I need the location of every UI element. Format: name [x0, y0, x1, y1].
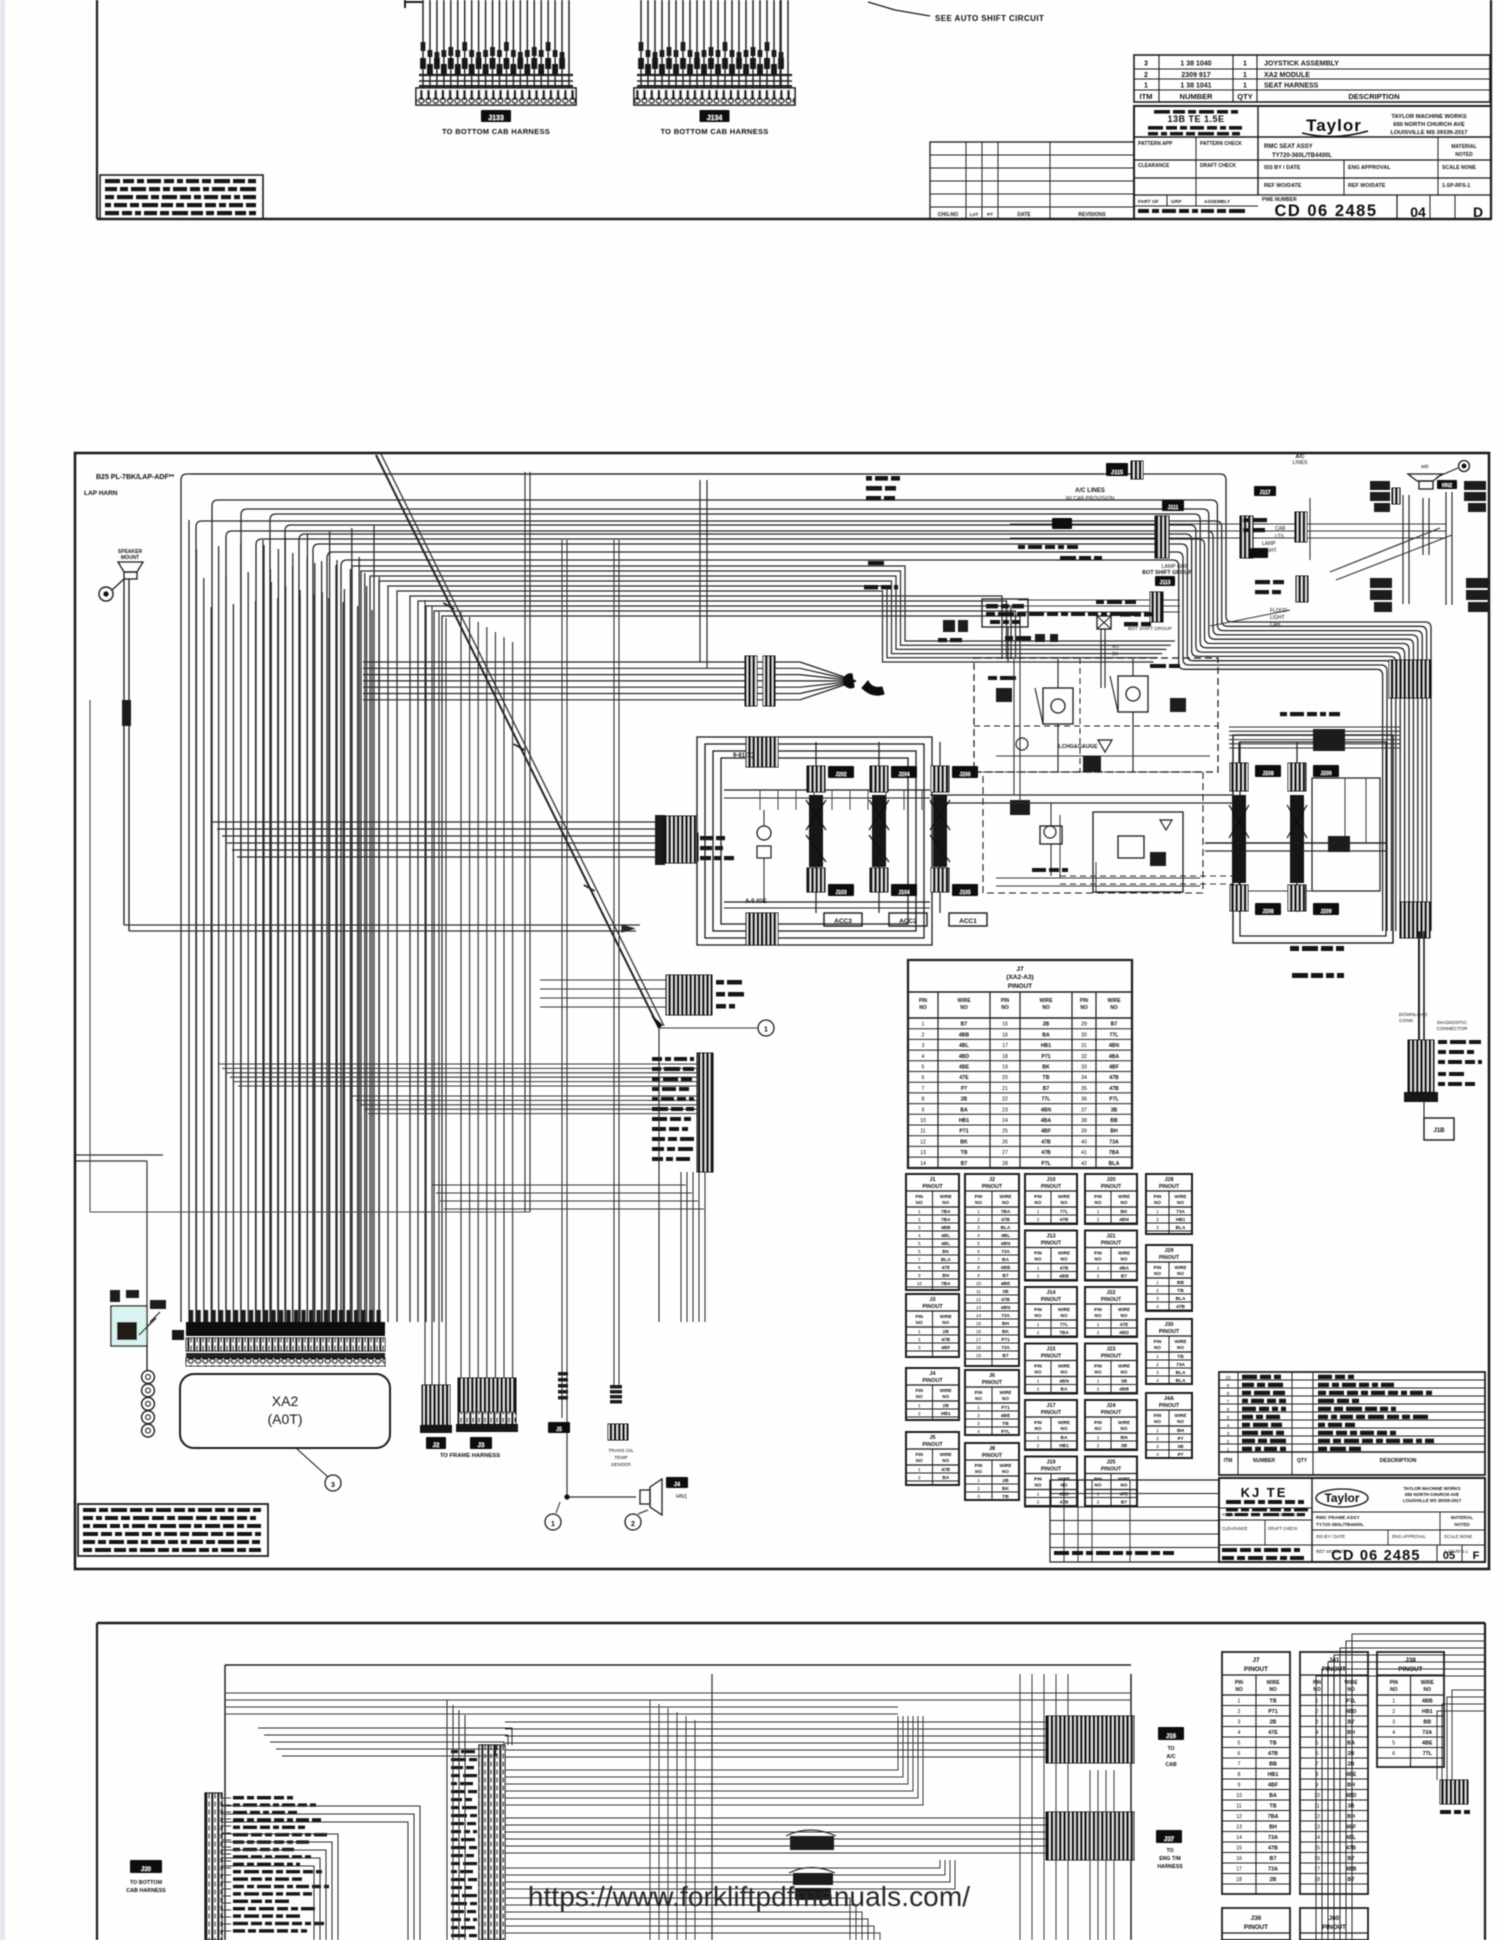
svg-text:NO: NO: [1095, 1370, 1102, 1375]
svg-text:38: 38: [1081, 1118, 1087, 1124]
svg-text:4BE: 4BE: [959, 1065, 970, 1071]
svg-text:J3: J3: [478, 1443, 485, 1449]
svg-text:2: 2: [1156, 1217, 1159, 1222]
sheet 3 border: [97, 1623, 1485, 1940]
svg-text:23: 23: [1002, 1107, 1008, 1113]
stub block verticals down to XA2: [659, 1028, 705, 1322]
left long wires: [76, 700, 530, 1306]
svg-text:10: 10: [920, 1118, 926, 1124]
svg-text:J10: J10: [1047, 1177, 1056, 1183]
svg-text:3: 3: [977, 1225, 980, 1230]
svg-text:B7: B7: [1270, 1856, 1277, 1862]
svg-text:PATTERN CHECK: PATTERN CHECK: [1200, 141, 1242, 147]
pinout table J7 sheet3: [1222, 1652, 1290, 1894]
svg-text:4BF: 4BF: [1041, 1129, 1051, 1135]
svg-text:CONN: CONN: [1399, 1018, 1414, 1024]
svg-text:J17: J17: [1047, 1403, 1056, 1409]
svg-text:BH: BH: [1121, 1435, 1128, 1441]
wire J134 to auto shift note: [780, 0, 930, 88]
svg-text:NO: NO: [1095, 1426, 1102, 1431]
svg-text:73A: 73A: [1176, 1362, 1185, 1368]
svg-text:PIN: PIN: [975, 1463, 983, 1468]
svg-text:PIN: PIN: [1313, 1680, 1322, 1686]
svg-text:BK: BK: [960, 1139, 968, 1145]
svg-text:J14: J14: [1047, 1290, 1056, 1296]
svg-text:4BD: 4BD: [1119, 1330, 1129, 1336]
verticals into XA2 connector band: [189, 520, 379, 1322]
svg-text:NO: NO: [1154, 1200, 1161, 1205]
svg-text:J60: J60: [1329, 1915, 1340, 1922]
svg-text:NO: NO: [1001, 1005, 1009, 1011]
svg-text:9: 9: [1316, 1783, 1319, 1789]
svg-text:47B: 47B: [1001, 1217, 1010, 1223]
svg-text:26: 26: [1002, 1139, 1008, 1145]
svg-text:ISS BY / DATE: ISS BY / DATE: [1264, 165, 1301, 171]
svg-text:22: 22: [1002, 1097, 1008, 1103]
svg-text:21: 21: [1002, 1086, 1008, 1092]
svg-text:4BN: 4BN: [1001, 1241, 1011, 1247]
X junction box: [1083, 612, 1154, 772]
svg-text:PINOUT: PINOUT: [1041, 1467, 1062, 1473]
svg-text:J23: J23: [1107, 1347, 1116, 1353]
svg-text:2: 2: [631, 1521, 635, 1528]
horn HN3 speaker mount left: [99, 549, 143, 931]
svg-text:4BF: 4BF: [1268, 1783, 1279, 1789]
svg-text:NO: NO: [1002, 1200, 1009, 1205]
pinout tables column 1: [906, 1174, 959, 1485]
svg-text:4BN: 4BN: [1041, 1107, 1052, 1113]
svg-text:J5: J5: [556, 1427, 562, 1433]
svg-text:WIRE: WIRE: [1000, 1390, 1012, 1395]
pinout tables column 2: [965, 1174, 1019, 1500]
svg-text:D: D: [1473, 204, 1483, 220]
svg-text:TO: TO: [1167, 1746, 1174, 1752]
svg-text:4BB: 4BB: [1346, 1867, 1357, 1873]
relay lower dashed area components: [996, 800, 1200, 893]
svg-text:SEE AUTO SHIFT CIRCUIT: SEE AUTO SHIFT CIRCUIT: [935, 14, 1044, 23]
svg-text:J13: J13: [1047, 1234, 1056, 1240]
svg-text:J202: J202: [835, 772, 846, 778]
proprietary note sheet2: [78, 1504, 268, 1556]
svg-text:33: 33: [1081, 1065, 1087, 1071]
svg-text:J115: J115: [1111, 470, 1123, 476]
horn HN1 bottom: [640, 1477, 688, 1515]
solenoid SHIFT A coil: [1229, 742, 1281, 915]
svg-text:NO: NO: [1154, 1271, 1161, 1276]
svg-text:5: 5: [922, 1065, 925, 1071]
svg-text:PINOUT: PINOUT: [982, 1453, 1003, 1459]
svg-text:1: 1: [1227, 1447, 1230, 1452]
svg-text:J1B: J1B: [1433, 1128, 1445, 1134]
svg-text:PATTERN CHECK: PATTERN CHECK: [1268, 1512, 1302, 1517]
svg-text:PIN: PIN: [1001, 998, 1010, 1004]
right block bottom labels: [1290, 946, 1344, 978]
svg-text:P71: P71: [1001, 1405, 1010, 1411]
svg-text:MATERIAL: MATERIAL: [1451, 144, 1476, 150]
frame harness connector J3 hatch: [456, 1378, 518, 1449]
svg-text:2: 2: [918, 1217, 921, 1222]
svg-text:WIRE: WIRE: [940, 1194, 952, 1199]
svg-text:NO: NO: [1121, 1426, 1128, 1431]
svg-text:2: 2: [1097, 1387, 1100, 1392]
svg-text:NO: NO: [1035, 1257, 1042, 1262]
svg-text:SCALE NONE: SCALE NONE: [1444, 1534, 1472, 1539]
svg-text:BH: BH: [1269, 1825, 1277, 1831]
svg-text:P7L: P7L: [1041, 1161, 1051, 1167]
svg-text:J38: J38: [1405, 1657, 1416, 1664]
svg-text:2B: 2B: [943, 1403, 950, 1409]
svg-text:2B: 2B: [1002, 1478, 1009, 1484]
relay block small components: [988, 664, 1210, 756]
svg-text:PIN: PIN: [1154, 1194, 1162, 1199]
horizontal bundle to J-stub block (upper): [218, 1064, 697, 1086]
svg-text:47E: 47E: [1120, 1492, 1129, 1498]
sheet3 stair bundle to J16: [505, 1716, 1046, 1805]
svg-text:4: 4: [1238, 1730, 1241, 1736]
svg-text:41: 41: [1081, 1150, 1087, 1156]
svg-text:PINOUT: PINOUT: [922, 1378, 943, 1384]
svg-text:NO: NO: [1035, 1200, 1042, 1205]
svg-text:73A: 73A: [1001, 1249, 1010, 1255]
svg-text:4BL: 4BL: [941, 1241, 950, 1247]
svg-text:2: 2: [1144, 72, 1148, 79]
svg-text:47B: 47B: [1346, 1846, 1356, 1852]
svg-text:PIN: PIN: [1094, 1307, 1102, 1312]
svg-text:NO: NO: [1424, 1687, 1432, 1693]
svg-text:ENG APPROVAL: ENG APPROVAL: [1392, 1534, 1426, 1539]
sheet3 connector strip left: [126, 1793, 231, 1940]
svg-text:WIRE: WIRE: [1118, 1420, 1130, 1425]
svg-text:2: 2: [1097, 1500, 1100, 1505]
svg-text:2: 2: [1097, 1274, 1100, 1279]
right side descent bundle below corner: [1389, 660, 1431, 938]
title block sheet2 CD 06 2485: [1219, 1478, 1485, 1564]
svg-text:5: 5: [1316, 1741, 1319, 1747]
svg-text:7BA: 7BA: [941, 1217, 951, 1223]
svg-text:47B: 47B: [1001, 1297, 1010, 1303]
svg-text:BOT SHIFT GROUP: BOT SHIFT GROUP: [1128, 626, 1172, 632]
svg-text:9: 9: [1238, 1783, 1241, 1789]
svg-text:PIN: PIN: [1034, 1477, 1042, 1482]
svg-text:TEMP: TEMP: [614, 1455, 627, 1461]
svg-text:J133: J133: [488, 115, 504, 122]
svg-text:PIN: PIN: [915, 1194, 923, 1199]
svg-text:HB1: HB1: [1268, 1772, 1279, 1778]
svg-text:PIN: PIN: [975, 1390, 983, 1395]
svg-text:29: 29: [1081, 1022, 1087, 1028]
svg-text:BK: BK: [1042, 1065, 1050, 1071]
pinout table J7 (XA2-A3): [908, 960, 1132, 1168]
svg-text:NO: NO: [975, 1469, 982, 1474]
svg-text:TB: TB: [961, 1150, 968, 1156]
svg-text:2: 2: [1097, 1443, 1100, 1448]
svg-text:NO: NO: [1313, 1687, 1321, 1693]
svg-text:7: 7: [1227, 1399, 1230, 1404]
pinout table J60 sheet3 (cropped): [1300, 1908, 1368, 1940]
svg-text:B7: B7: [1002, 1273, 1008, 1279]
svg-text:6: 6: [1227, 1407, 1230, 1412]
svg-text:NO: NO: [942, 1394, 949, 1399]
svg-text:1: 1: [922, 1022, 925, 1028]
wire stub top left of J133: [405, 0, 423, 8]
svg-text:MOUNT: MOUNT: [121, 555, 139, 561]
svg-text:BA: BA: [1002, 1257, 1009, 1263]
svg-text:TY720-360L/TB4400L: TY720-360L/TB4400L: [1272, 153, 1332, 159]
svg-text:16: 16: [1002, 1032, 1008, 1038]
svg-text:PART OF: PART OF: [1138, 199, 1159, 205]
svg-text:7: 7: [1238, 1762, 1241, 1768]
svg-text:15: 15: [1236, 1846, 1242, 1852]
svg-text:47E: 47E: [1120, 1322, 1129, 1328]
svg-text:BH: BH: [1347, 1814, 1355, 1820]
svg-text:13: 13: [1236, 1825, 1242, 1831]
svg-text:TB: TB: [1177, 1354, 1184, 1360]
svg-text:4: 4: [977, 1429, 980, 1434]
svg-text:NO: NO: [1177, 1345, 1184, 1350]
svg-text:1: 1: [918, 1467, 921, 1472]
svg-text:NO: NO: [1095, 1483, 1102, 1488]
solenoid SHIFT B coil: [1287, 742, 1339, 915]
svg-text:PINOUT: PINOUT: [1101, 1184, 1122, 1190]
svg-text:3: 3: [977, 1421, 980, 1426]
svg-text:3: 3: [1156, 1370, 1159, 1375]
harness funnel pigtail: [363, 480, 884, 706]
svg-text:NO: NO: [1154, 1345, 1161, 1350]
svg-text:3: 3: [1227, 1431, 1230, 1436]
sheet3 stair bundle to J37: [505, 1818, 1046, 1940]
svg-text:NO: NO: [960, 1005, 968, 1011]
svg-text:PINOUT: PINOUT: [1041, 1410, 1062, 1416]
svg-text:WIRE: WIRE: [1039, 998, 1053, 1004]
svg-text:8: 8: [1238, 1772, 1241, 1778]
svg-text:73A: 73A: [1268, 1835, 1278, 1841]
svg-text:1: 1: [1097, 1492, 1100, 1497]
parts list sheet1: [1134, 55, 1490, 102]
svg-text:47B: 47B: [1041, 1139, 1051, 1145]
svg-text:PINOUT: PINOUT: [1159, 1403, 1180, 1409]
svg-text:W/ CAB PROVISION: W/ CAB PROVISION: [1066, 496, 1115, 502]
svg-text:TY720-360L/TB4400L: TY720-360L/TB4400L: [1316, 1522, 1364, 1528]
svg-text:3: 3: [918, 1345, 921, 1350]
svg-text:SEAT HARNESS: SEAT HARNESS: [1264, 83, 1319, 90]
svg-text:REF WO/DATE: REF WO/DATE: [1264, 183, 1302, 189]
svg-text:73A: 73A: [1001, 1313, 1010, 1319]
svg-text:1: 1: [918, 1329, 921, 1334]
svg-text:PIN: PIN: [1154, 1413, 1162, 1418]
svg-text:40: 40: [1081, 1139, 1087, 1145]
svg-text:14: 14: [1314, 1835, 1320, 1841]
svg-text:PIN: PIN: [1034, 1194, 1042, 1199]
svg-text:ACC3: ACC3: [834, 918, 852, 925]
svg-text:J15: J15: [1047, 1347, 1056, 1353]
svg-text:P7L: P7L: [1001, 1429, 1010, 1435]
sheet3 inner frame: [225, 1665, 1131, 1940]
svg-text:TO FRAME HARNESS: TO FRAME HARNESS: [440, 1453, 500, 1459]
svg-text:NO: NO: [1235, 1687, 1243, 1693]
svg-text:1: 1: [1156, 1209, 1159, 1214]
svg-text:17: 17: [1236, 1867, 1242, 1873]
pinout table J38 sheet3: [1377, 1652, 1444, 1767]
svg-text:2: 2: [1097, 1217, 1100, 1222]
svg-text:2: 2: [1392, 1709, 1395, 1715]
svg-text:2B: 2B: [943, 1329, 950, 1335]
svg-text:04: 04: [1410, 204, 1426, 220]
bus from ACC block to right block: [930, 659, 1233, 884]
BOT SHIFT GROUP leader: [1142, 528, 1452, 580]
svg-text:TO BOTTOM CAB HARNESS: TO BOTTOM CAB HARNESS: [442, 127, 550, 136]
svg-text:XA2: XA2: [272, 1393, 299, 1409]
svg-text:ACC2: ACC2: [899, 918, 917, 925]
horizontal bundle into ACC feed connector: [212, 815, 665, 865]
svg-text:77L: 77L: [1110, 1032, 1120, 1038]
svg-text:18: 18: [976, 1345, 982, 1350]
connector J115 and A/C note top right: [1066, 461, 1143, 502]
svg-text:7: 7: [977, 1257, 980, 1262]
svg-text:1: 1: [1037, 1266, 1040, 1271]
svg-text:TAYLOR MACHINE WORKS: TAYLOR MACHINE WORKS: [1403, 1486, 1460, 1491]
watermark URL: [528, 1881, 970, 1912]
svg-text:B7: B7: [1002, 1353, 1008, 1359]
svg-text:31: 31: [1081, 1043, 1087, 1049]
svg-text:PINOUT: PINOUT: [1322, 1924, 1346, 1931]
svg-text:PINOUT: PINOUT: [1398, 1666, 1422, 1673]
mid right second lamp group: [1018, 576, 1290, 632]
svg-text:DRAFT CHECK: DRAFT CHECK: [1268, 1526, 1298, 1531]
svg-text:A/C LINES: A/C LINES: [1075, 488, 1105, 494]
svg-text:J103: J103: [835, 890, 846, 896]
svg-text:47E: 47E: [941, 1265, 950, 1271]
svg-text:4BD: 4BD: [959, 1054, 970, 1060]
svg-text:BA: BA: [1042, 1032, 1050, 1038]
svg-text:P71: P71: [1268, 1709, 1278, 1715]
svg-text:2: 2: [977, 1413, 980, 1418]
svg-text:7BA: 7BA: [941, 1209, 951, 1215]
svg-text:12: 12: [1236, 1814, 1242, 1820]
svg-text:11: 11: [976, 1289, 981, 1294]
svg-text:NO: NO: [975, 1396, 982, 1401]
svg-text:CAB: CAB: [1165, 1762, 1176, 1768]
svg-text:4BE: 4BE: [1422, 1741, 1433, 1747]
svg-text:BA: BA: [1061, 1435, 1068, 1441]
svg-text:WIRE: WIRE: [1344, 1680, 1358, 1686]
svg-text:J104: J104: [898, 890, 909, 896]
revisions table sheet1: [930, 142, 1134, 219]
svg-text:11: 11: [920, 1129, 925, 1135]
svg-text:5: 5: [918, 1241, 921, 1246]
svg-text:PINOUT: PINOUT: [922, 1442, 943, 1448]
temp sender wire hardware: [548, 1372, 636, 1499]
svg-text:WIRE: WIRE: [1058, 1420, 1070, 1425]
svg-text:J204: J204: [898, 772, 909, 778]
svg-text:47E: 47E: [959, 1075, 969, 1081]
trunk bundle B (6 wires) mid stair: [352, 566, 1175, 1322]
svg-text:SENDER: SENDER: [611, 1462, 632, 1468]
svg-text:BB: BB: [1177, 1280, 1184, 1286]
svg-text:1: 1: [1097, 1379, 1100, 1384]
svg-text:8: 8: [1316, 1772, 1319, 1778]
svg-text:BH: BH: [942, 1273, 949, 1279]
svg-text:1: 1: [1097, 1435, 1100, 1440]
svg-text:WIRE: WIRE: [1058, 1251, 1070, 1256]
solenoid ACC2 coil: [869, 742, 917, 913]
svg-text:BA: BA: [1061, 1387, 1068, 1393]
svg-text:PINOUT: PINOUT: [1322, 1666, 1346, 1673]
svg-text:4BL: 4BL: [1001, 1233, 1010, 1239]
svg-text:1: 1: [764, 1027, 768, 1034]
svg-text:NO: NO: [1035, 1426, 1042, 1431]
top right lamp circuit wires: [1010, 498, 1446, 570]
svg-text:NO: NO: [1121, 1313, 1128, 1318]
connector stub block right of bundles: [652, 1053, 713, 1172]
svg-text:P7: P7: [1178, 1452, 1184, 1458]
right solenoid block enclosures: [1233, 735, 1393, 943]
svg-text:LOUISVILLE MS 39339-2017: LOUISVILLE MS 39339-2017: [1403, 1498, 1462, 1503]
svg-text:Taylor: Taylor: [1306, 116, 1362, 135]
svg-text:P71: P71: [1001, 1337, 1010, 1343]
svg-text:NO: NO: [919, 1005, 927, 1011]
svg-text:73A: 73A: [1422, 1730, 1432, 1736]
svg-text:P71: P71: [959, 1129, 968, 1135]
svg-text:BLA: BLA: [1176, 1225, 1186, 1231]
svg-text:WIRE: WIRE: [1118, 1251, 1130, 1256]
svg-text:2: 2: [1037, 1217, 1040, 1222]
svg-text:NO: NO: [1061, 1370, 1068, 1375]
svg-text:4BA: 4BA: [1119, 1266, 1129, 1272]
wire loop left of horn HN2: [1370, 481, 1409, 612]
svg-text:10: 10: [1236, 1793, 1242, 1799]
svg-text:P7: P7: [1178, 1436, 1184, 1442]
svg-text:BLA: BLA: [941, 1257, 951, 1263]
links to stub block lower: [432, 1185, 704, 1209]
svg-text:TO BOTTOM CAB HARNESS: TO BOTTOM CAB HARNESS: [660, 127, 768, 136]
svg-text:NUMBER: NUMBER: [1180, 92, 1213, 101]
svg-text:NO: NO: [1177, 1200, 1184, 1205]
svg-text:TB: TB: [1043, 1075, 1050, 1081]
svg-text:RMC FRAME ASSY: RMC FRAME ASSY: [1316, 1515, 1360, 1521]
svg-text:47E: 47E: [1268, 1730, 1278, 1736]
svg-text:ITM: ITM: [1224, 1458, 1233, 1464]
svg-text:LINES: LINES: [1293, 460, 1309, 466]
svg-text:A/C: A/C: [1167, 1754, 1176, 1760]
svg-text:WIRE: WIRE: [1175, 1194, 1187, 1199]
svg-text:7: 7: [922, 1086, 925, 1092]
horn HN2 top right corner: [1293, 454, 1470, 555]
svg-text:36: 36: [1081, 1097, 1087, 1103]
svg-text:PIN: PIN: [1390, 1680, 1399, 1686]
svg-text:J41: J41: [1329, 1657, 1340, 1664]
svg-text:CONNECTOR: CONNECTOR: [1437, 1026, 1468, 1032]
svg-text:42: 42: [1081, 1161, 1087, 1167]
svg-text:WIRE: WIRE: [1107, 998, 1121, 1004]
svg-text:NO: NO: [1061, 1313, 1068, 1318]
svg-text:NO: NO: [1061, 1200, 1068, 1205]
power module cyan switch: [110, 1290, 166, 1371]
svg-text:LOUISVILLE MS 39339-2017: LOUISVILLE MS 39339-2017: [1390, 130, 1467, 136]
svg-text:WIRE: WIRE: [1058, 1364, 1070, 1369]
note B25 PL-7BK/LAP top left: [84, 474, 174, 497]
svg-text:GRP: GRP: [1171, 199, 1182, 205]
svg-text:77L: 77L: [1423, 1751, 1433, 1757]
svg-text:HB1: HB1: [1041, 1043, 1051, 1049]
ground daisy chain circles: [142, 1371, 155, 1437]
svg-text:PINOUT: PINOUT: [1159, 1184, 1180, 1190]
svg-text:NO: NO: [916, 1458, 923, 1463]
svg-text:3: 3: [1156, 1225, 1159, 1230]
wire from note to J115: [190, 473, 1104, 475]
sheet 1 border: [97, 0, 1491, 219]
svg-text:XA2 MODULE: XA2 MODULE: [1264, 72, 1310, 79]
svg-text:73A: 73A: [1176, 1209, 1185, 1215]
